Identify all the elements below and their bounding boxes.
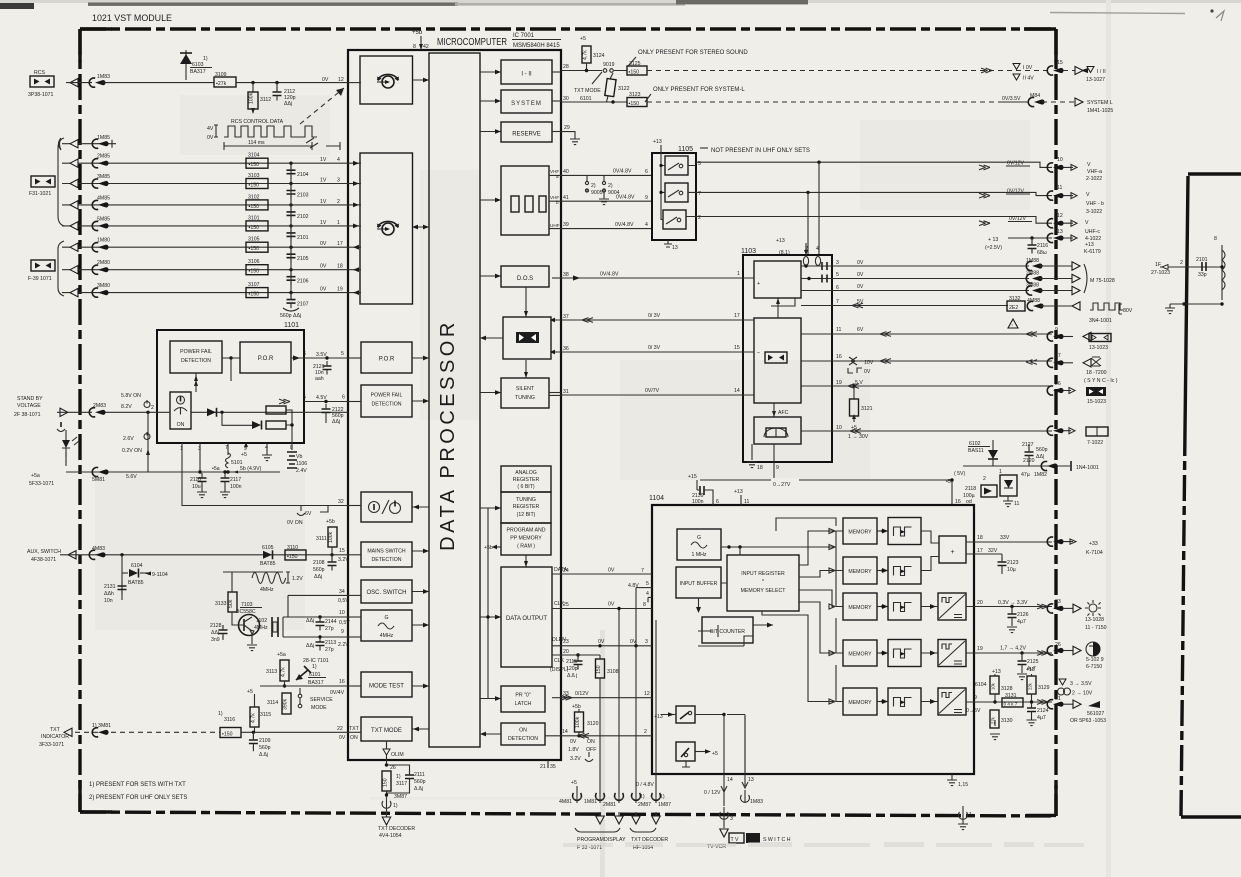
- svg-text:M84: M84: [1030, 93, 1040, 99]
- svg-text:▪150: ▪150: [287, 554, 298, 560]
- svg-text:100k: 100k: [328, 531, 334, 543]
- svg-text:0V/3.5V: 0V/3.5V: [1002, 96, 1021, 102]
- svg-text:AFC: AFC: [778, 410, 789, 416]
- svg-text:13: 13: [748, 777, 754, 783]
- svg-text:3F33-1071: 3F33-1071: [39, 742, 64, 748]
- svg-text:ΔΔ|: ΔΔ|: [1036, 454, 1044, 460]
- svg-text:STAND BY: STAND BY: [17, 396, 43, 402]
- svg-text:27: 27: [1055, 353, 1061, 359]
- svg-text:9: 9: [1055, 327, 1058, 333]
- svg-text:2) PRESENT FOR UHF ONLY SETS: 2) PRESENT FOR UHF ONLY SETS: [89, 795, 187, 801]
- svg-text:8: 8: [1055, 421, 1058, 427]
- svg-text:+13: +13: [992, 669, 1001, 675]
- svg-text:2M81: 2M81: [603, 802, 616, 808]
- svg-text:14: 14: [727, 777, 733, 783]
- svg-text:1.2V: 1.2V: [292, 576, 303, 582]
- svg-text:2117: 2117: [230, 477, 241, 483]
- svg-text:13: 13: [1057, 229, 1063, 235]
- svg-text:50k: 50k: [228, 599, 234, 608]
- svg-text:19: 19: [977, 646, 983, 652]
- svg-text:3104: 3104: [248, 153, 260, 159]
- svg-text:MODE TEST: MODE TEST: [369, 684, 404, 690]
- svg-text:0V: 0V: [857, 272, 864, 278]
- svg-text:0V/7V: 0V/7V: [645, 388, 660, 394]
- svg-text:560p: 560p: [414, 779, 426, 785]
- svg-text:•5a: •5a: [212, 466, 220, 472]
- svg-text:( 5V): ( 5V): [954, 471, 966, 477]
- svg-text:Δ Δ j: Δ Δ j: [567, 673, 577, 679]
- svg-text:1V: 1V: [320, 220, 327, 226]
- svg-text:3123: 3123: [629, 92, 641, 98]
- svg-text:1: 1: [999, 469, 1002, 475]
- svg-text:AUX, SWITCH: AUX, SWITCH: [27, 549, 61, 555]
- svg-text:4: 4: [645, 222, 648, 228]
- svg-text:0V ON: 0V ON: [287, 520, 303, 526]
- svg-text:ΔΔj: ΔΔj: [332, 419, 340, 425]
- svg-text:4: 4: [337, 157, 340, 163]
- svg-text:7: 7: [836, 299, 839, 305]
- svg-text:3: 3: [730, 816, 733, 822]
- svg-text:K-6179: K-6179: [1084, 249, 1101, 255]
- svg-text:4.7k: 4.7k: [583, 50, 589, 60]
- svg-text:6104: 6104: [975, 682, 987, 688]
- svg-text:VHF-a: VHF-a: [1087, 169, 1102, 175]
- svg-text:10u: 10u: [192, 484, 201, 490]
- svg-text:ΔΔh: ΔΔh: [104, 591, 114, 597]
- svg-text:BIT COUNTER: BIT COUNTER: [710, 629, 745, 635]
- svg-text:33p: 33p: [1198, 272, 1207, 278]
- svg-text:0→27V: 0→27V: [773, 482, 791, 488]
- svg-text:MSM5840H 8415: MSM5840H 8415: [513, 43, 560, 49]
- svg-text:0/ 3V: 0/ 3V: [648, 313, 661, 319]
- svg-text:2104: 2104: [297, 172, 309, 178]
- svg-text:SILENT: SILENT: [516, 386, 535, 392]
- svg-text:12: 12: [338, 77, 344, 83]
- svg-text:18: 18: [977, 535, 983, 541]
- svg-text:MEMORY: MEMORY: [848, 569, 872, 575]
- svg-text:150: 150: [383, 778, 389, 787]
- svg-text:17: 17: [337, 241, 343, 247]
- svg-text:3130: 3130: [1001, 718, 1013, 724]
- svg-text:47µ: 47µ: [1021, 472, 1030, 478]
- svg-text:1): 1): [396, 774, 401, 780]
- svg-text:b: b: [556, 200, 559, 205]
- svg-text:8: 8: [1214, 236, 1217, 242]
- svg-text:I - II: I - II: [521, 72, 532, 78]
- svg-text:2131: 2131: [104, 584, 116, 590]
- svg-text:BA317: BA317: [308, 680, 324, 686]
- svg-text:+5: +5: [580, 36, 586, 42]
- svg-text:20: 20: [977, 600, 983, 606]
- svg-text:(8.1): (8.1): [779, 250, 790, 256]
- svg-text:0V: 0V: [857, 284, 864, 290]
- svg-text:3101: 3101: [248, 215, 260, 221]
- svg-text:9: 9: [645, 195, 648, 201]
- svg-text:16: 16: [836, 354, 842, 360]
- svg-text:1101: 1101: [284, 322, 299, 329]
- svg-text:5M81: 5M81: [92, 477, 105, 483]
- svg-text:MEMORY SELECT: MEMORY SELECT: [741, 588, 787, 594]
- svg-text:+33: +33: [1089, 541, 1098, 547]
- svg-text:F31-1021: F31-1021: [29, 191, 51, 197]
- svg-text:0V/4.8V: 0V/4.8V: [615, 222, 634, 228]
- svg-text:ΔΔj: ΔΔj: [284, 101, 292, 107]
- svg-text:3111: 3111: [316, 536, 327, 542]
- svg-text:▪150: ▪150: [249, 183, 260, 189]
- svg-text:a: a: [556, 174, 559, 179]
- svg-text:DETECTION: DETECTION: [181, 358, 211, 364]
- svg-text:V: V: [1086, 192, 1090, 198]
- svg-text:21: 21: [540, 764, 546, 770]
- svg-text:2113: 2113: [325, 640, 336, 646]
- svg-text:3: 3: [645, 639, 648, 645]
- svg-text:2120: 2120: [1023, 458, 1035, 464]
- svg-text:560p ΔΔj: 560p ΔΔj: [280, 313, 301, 319]
- svg-text:UHF: UHF: [550, 223, 560, 228]
- svg-text:▪150: ▪150: [249, 292, 260, 298]
- svg-text:ΔΔj: ΔΔj: [306, 618, 314, 624]
- svg-text:2123: 2123: [1007, 560, 1019, 566]
- svg-text:8: 8: [413, 44, 416, 50]
- svg-text:2105: 2105: [297, 256, 309, 262]
- svg-text:+13: +13: [653, 139, 662, 145]
- svg-text:+5: +5: [571, 780, 577, 786]
- svg-text:15-1023: 15-1023: [1087, 399, 1106, 405]
- svg-text:2109: 2109: [259, 738, 271, 744]
- svg-text:RCS: RCS: [34, 70, 45, 76]
- svg-text:13-1028: 13-1028: [1085, 617, 1104, 623]
- svg-text:9004: 9004: [608, 190, 620, 196]
- svg-text:0V/4.8V: 0V/4.8V: [613, 169, 632, 175]
- svg-text:1F: 1F: [1155, 262, 1161, 268]
- svg-text:3M88: 3M88: [1026, 283, 1039, 289]
- svg-text:1,7 → 4,2V: 1,7 → 4,2V: [1000, 646, 1026, 652]
- svg-text:68ω: 68ω: [1037, 250, 1047, 256]
- svg-text:+5b: +5b: [326, 519, 335, 525]
- svg-text:PR "0": PR "0": [515, 693, 530, 699]
- svg-text:+5: +5: [712, 751, 718, 757]
- svg-text:BC558C: BC558C: [236, 609, 256, 615]
- svg-text:2: 2: [337, 199, 340, 205]
- svg-text:1 MHz: 1 MHz: [692, 552, 707, 558]
- svg-text:1106: 1106: [296, 461, 307, 467]
- svg-text:2): 2): [591, 183, 596, 189]
- svg-text:5.6V: 5.6V: [126, 474, 137, 480]
- svg-text:PP MEMORY: PP MEMORY: [510, 536, 542, 542]
- svg-text:1: 1: [969, 812, 972, 818]
- svg-text:27p: 27p: [325, 647, 334, 653]
- svg-text:2M87: 2M87: [638, 802, 651, 808]
- svg-text:INPUT BUFFER: INPUT BUFFER: [680, 581, 718, 587]
- svg-text:1M85: 1M85: [97, 135, 110, 141]
- svg-text:BAT85: BAT85: [260, 561, 276, 567]
- svg-text:16: 16: [339, 679, 345, 685]
- svg-text:5-102 9: 5-102 9: [1086, 657, 1104, 663]
- svg-text:6V: 6V: [857, 327, 864, 333]
- svg-text:2M88: 2M88: [1026, 271, 1039, 277]
- svg-text:+5a: +5a: [31, 473, 40, 479]
- svg-text:3.2V: 3.2V: [338, 557, 349, 563]
- svg-text:3103: 3103: [248, 173, 260, 179]
- svg-text:DATA: DATA: [554, 567, 568, 573]
- svg-text:5b (4.9V): 5b (4.9V): [240, 466, 262, 472]
- svg-text:4µ7: 4µ7: [1037, 715, 1046, 721]
- svg-text:4V4-1054: 4V4-1054: [379, 833, 402, 839]
- svg-text:100n: 100n: [692, 499, 704, 505]
- svg-text:3122: 3122: [618, 86, 630, 92]
- svg-text:560p: 560p: [259, 745, 271, 751]
- svg-text:10V: 10V: [864, 360, 874, 366]
- svg-text:3128: 3128: [1001, 686, 1013, 692]
- svg-text:DATA OUTPUT: DATA OUTPUT: [506, 616, 547, 622]
- svg-text:4M85: 4M85: [97, 195, 110, 201]
- svg-text:11: 11: [1014, 501, 1019, 507]
- svg-text:2M83: 2M83: [93, 403, 106, 409]
- svg-text:100n: 100n: [230, 484, 242, 490]
- svg-text:BAT85: BAT85: [128, 580, 144, 586]
- svg-text:560p: 560p: [1036, 447, 1048, 453]
- svg-text:4MHz: 4MHz: [254, 625, 268, 631]
- svg-text:BAS11: BAS11: [968, 448, 984, 454]
- svg-text:3114: 3114: [267, 700, 278, 706]
- svg-text:3109: 3109: [215, 72, 227, 78]
- svg-text:31: 31: [1055, 696, 1061, 702]
- svg-text:CLK: CLK: [554, 601, 565, 607]
- svg-text:2110: 2110: [190, 477, 201, 483]
- svg-text:VOLTAGE: VOLTAGE: [17, 403, 41, 409]
- svg-text:15: 15: [339, 548, 345, 554]
- svg-text:3: 3: [337, 178, 340, 184]
- svg-text:F-39 1071: F-39 1071: [28, 276, 52, 282]
- svg-text:10µ: 10µ: [1007, 567, 1016, 573]
- svg-text:1) 3M81: 1) 3M81: [92, 723, 111, 729]
- svg-text:ON: ON: [519, 728, 527, 734]
- svg-text:2E2: 2E2: [1009, 305, 1018, 311]
- svg-text:REGISTER: REGISTER: [513, 477, 540, 483]
- svg-text:1: 1: [737, 271, 740, 277]
- svg-text:DISPLAY: DISPLAY: [604, 837, 626, 843]
- svg-text:1) PRESENT FOR SETS WITH T: 1) PRESENT FOR SETS WITH TXT: [89, 782, 186, 788]
- svg-text:3M80: 3M80: [97, 283, 110, 289]
- svg-text:K-7104: K-7104: [1086, 550, 1103, 556]
- svg-text:!: !: [1012, 323, 1013, 328]
- svg-text:LATCH: LATCH: [515, 701, 532, 707]
- svg-text:0V: 0V: [598, 639, 605, 645]
- svg-text:2111: 2111: [414, 772, 425, 778]
- svg-text:0/12V: 0/12V: [575, 691, 589, 697]
- svg-text:TXT: TXT: [349, 726, 360, 732]
- svg-text:1M83: 1M83: [750, 799, 763, 805]
- svg-text:0,5V: 0,5V: [339, 620, 350, 626]
- svg-text:MODE: MODE: [311, 705, 327, 711]
- svg-text:2101: 2101: [297, 235, 309, 241]
- svg-text:2127: 2127: [1022, 442, 1034, 448]
- svg-text:27-1023: 27-1023: [1151, 270, 1170, 276]
- svg-text:10k: 10k: [991, 682, 996, 690]
- svg-text:2107: 2107: [297, 302, 309, 308]
- svg-text:1): 1): [218, 711, 223, 717]
- svg-text:( RAM ): ( RAM ): [517, 544, 535, 550]
- svg-text:3113: 3113: [266, 669, 277, 675]
- svg-text:*: *: [762, 579, 764, 585]
- svg-text:4M88: 4M88: [1027, 298, 1040, 304]
- svg-text:3n9: 3n9: [211, 637, 220, 643]
- svg-text:2: 2: [983, 476, 986, 482]
- svg-text:29: 29: [564, 125, 570, 131]
- svg-text:2124: 2124: [1037, 708, 1049, 714]
- svg-text:6-7150: 6-7150: [1086, 664, 1102, 670]
- svg-text:+5b: +5b: [412, 30, 423, 36]
- svg-text:3105: 3105: [248, 237, 260, 243]
- svg-text:8.2V: 8.2V: [121, 404, 132, 410]
- svg-text:1V: 1V: [320, 178, 327, 184]
- svg-text:DETECTION: DETECTION: [372, 557, 402, 563]
- svg-text:3 → 3.5V: 3 → 3.5V: [1070, 681, 1092, 687]
- svg-text:3133: 3133: [215, 601, 227, 607]
- svg-text:1103: 1103: [741, 248, 756, 255]
- svg-text:6: 6: [716, 499, 719, 505]
- svg-text:V: V: [1087, 162, 1091, 168]
- svg-text:ON: ON: [177, 422, 185, 428]
- svg-text:4MHz: 4MHz: [380, 633, 394, 639]
- svg-text:2.4V: 2.4V: [296, 468, 307, 474]
- svg-text:390k: 390k: [283, 698, 289, 710]
- svg-text:2125: 2125: [1027, 659, 1039, 665]
- svg-text:31: 31: [563, 389, 569, 395]
- svg-text:114 ms: 114 ms: [248, 140, 265, 146]
- svg-text:19: 19: [836, 380, 842, 386]
- svg-text:OSC. SWITCH: OSC. SWITCH: [367, 590, 407, 596]
- svg-text:17: 17: [977, 548, 983, 554]
- svg-text:1M83: 1M83: [97, 74, 110, 80]
- svg-text:2M80: 2M80: [97, 260, 110, 266]
- svg-text:3120: 3120: [587, 721, 599, 727]
- svg-text:MEMORY: MEMORY: [848, 652, 872, 658]
- svg-text:10: 10: [339, 610, 345, 616]
- svg-text:22: 22: [337, 726, 343, 732]
- svg-text:ΔΔj: ΔΔj: [211, 630, 219, 636]
- svg-text:150: 150: [596, 665, 602, 674]
- svg-text:3124: 3124: [593, 53, 605, 59]
- svg-text:SYSTEM: SYSTEM: [511, 101, 542, 107]
- svg-text:4.7k: 4.7k: [281, 667, 287, 677]
- svg-text:80V: 80V: [1123, 308, 1133, 314]
- svg-text:11: 11: [836, 327, 841, 333]
- svg-text:2: 2: [1180, 260, 1183, 266]
- svg-text:Vb: Vb: [296, 454, 302, 460]
- svg-text:4.8V: 4.8V: [628, 583, 639, 589]
- svg-text:•5: •5: [946, 479, 951, 485]
- svg-text:5F33-1071: 5F33-1071: [29, 481, 54, 487]
- svg-text:5: 5: [646, 581, 649, 587]
- svg-text:▪150: ▪150: [249, 225, 260, 231]
- svg-text:TXT: TXT: [50, 727, 61, 733]
- svg-text:6104: 6104: [131, 563, 143, 569]
- svg-text:+15: +15: [688, 474, 697, 480]
- svg-text:T V: T V: [731, 837, 740, 843]
- svg-text:13: 13: [672, 245, 678, 251]
- svg-text:32V: 32V: [988, 548, 998, 554]
- svg-text:+: +: [950, 549, 954, 556]
- svg-text:18 -7200: 18 -7200: [1086, 370, 1107, 376]
- svg-text:20: 20: [563, 649, 569, 655]
- svg-text:Δ Δj: Δ Δj: [414, 786, 423, 792]
- svg-text:5.8V ON: 5.8V ON: [121, 393, 141, 399]
- svg-text:26: 26: [390, 765, 396, 771]
- svg-text:4: 4: [816, 246, 819, 252]
- svg-text:0 / 4.8V: 0 / 4.8V: [636, 782, 654, 788]
- svg-text:41: 41: [563, 195, 569, 201]
- svg-text:38: 38: [563, 272, 569, 278]
- svg-text:2102: 2102: [297, 214, 309, 220]
- svg-text:5: 5: [303, 395, 306, 401]
- svg-text:P.O.R: P.O.R: [258, 356, 274, 362]
- svg-text:5M85: 5M85: [97, 216, 110, 222]
- svg-text:1M88: 1M88: [1026, 258, 1039, 264]
- svg-text:0→5V: 0→5V: [966, 708, 981, 714]
- svg-text:V: V: [1085, 220, 1089, 226]
- svg-text:0V: 0V: [320, 264, 327, 270]
- svg-text:4µ7: 4µ7: [1017, 619, 1026, 625]
- svg-text:0 / 12V: 0 / 12V: [704, 790, 721, 796]
- svg-text:od: od: [966, 499, 972, 505]
- svg-text:3P38-1071: 3P38-1071: [28, 92, 53, 98]
- svg-text:+13: +13: [654, 714, 663, 720]
- svg-text:3116: 3116: [224, 717, 235, 723]
- svg-text:3125: 3125: [629, 61, 641, 67]
- svg-text:1: 1: [337, 220, 340, 226]
- svg-text:4M83: 4M83: [92, 546, 105, 552]
- svg-text:3107: 3107: [248, 282, 260, 288]
- svg-text:35: 35: [550, 764, 556, 770]
- svg-text:TUNING: TUNING: [515, 395, 535, 401]
- svg-text:7-1022: 7-1022: [1087, 440, 1103, 446]
- svg-text:5: 5: [1055, 532, 1058, 538]
- svg-text:0,3V → 3,3V: 0,3V → 3,3V: [998, 600, 1028, 606]
- svg-text:3117: 3117: [396, 781, 407, 787]
- svg-text:aah: aah: [315, 376, 324, 382]
- svg-text:I 0V: I 0V: [1023, 65, 1033, 71]
- svg-text:1N4-1001: 1N4-1001: [1076, 465, 1099, 471]
- svg-text:7: 7: [641, 568, 644, 574]
- svg-text:RCS CONTROL DATA: RCS CONTROL DATA: [231, 119, 284, 125]
- svg-text:27k: 27k: [991, 716, 996, 724]
- svg-text:26: 26: [1055, 381, 1061, 387]
- svg-text:IC 7001: IC 7001: [513, 33, 535, 39]
- svg-text:13-1027: 13-1027: [1086, 77, 1105, 83]
- svg-text:1021 VST MODULE: 1021 VST MODULE: [92, 13, 172, 24]
- svg-text:0 4 k 7: 0 4 k 7: [1004, 702, 1018, 707]
- svg-text:10: 10: [836, 425, 842, 431]
- svg-text:+13: +13: [1085, 242, 1094, 248]
- svg-text:6: 6: [836, 285, 839, 291]
- svg-text:+5: +5: [241, 452, 247, 458]
- svg-text:0V: 0V: [322, 77, 329, 83]
- svg-text:0V: 0V: [320, 241, 327, 247]
- svg-text:3121: 3121: [861, 406, 873, 412]
- svg-text:PROGRAM AND: PROGRAM AND: [507, 528, 546, 534]
- svg-text:OR 5P63 -1053: OR 5P63 -1053: [1070, 718, 1106, 724]
- svg-text:ONLY PRESENT FOR STEREO SO: ONLY PRESENT FOR STEREO SOUND: [638, 50, 748, 56]
- svg-text:4M81: 4M81: [559, 799, 572, 805]
- svg-text:1M87: 1M87: [658, 802, 671, 808]
- svg-text:4: 4: [646, 591, 649, 597]
- svg-text:ANALOG: ANALOG: [515, 470, 537, 476]
- svg-text:3.5V: 3.5V: [316, 352, 327, 358]
- svg-text:4V: 4V: [207, 126, 214, 132]
- svg-text:ONLY PRESENT FOR SYSTEM-L: ONLY PRESENT FOR SYSTEM-L: [653, 87, 745, 93]
- svg-text:RESERVE: RESERVE: [512, 132, 541, 138]
